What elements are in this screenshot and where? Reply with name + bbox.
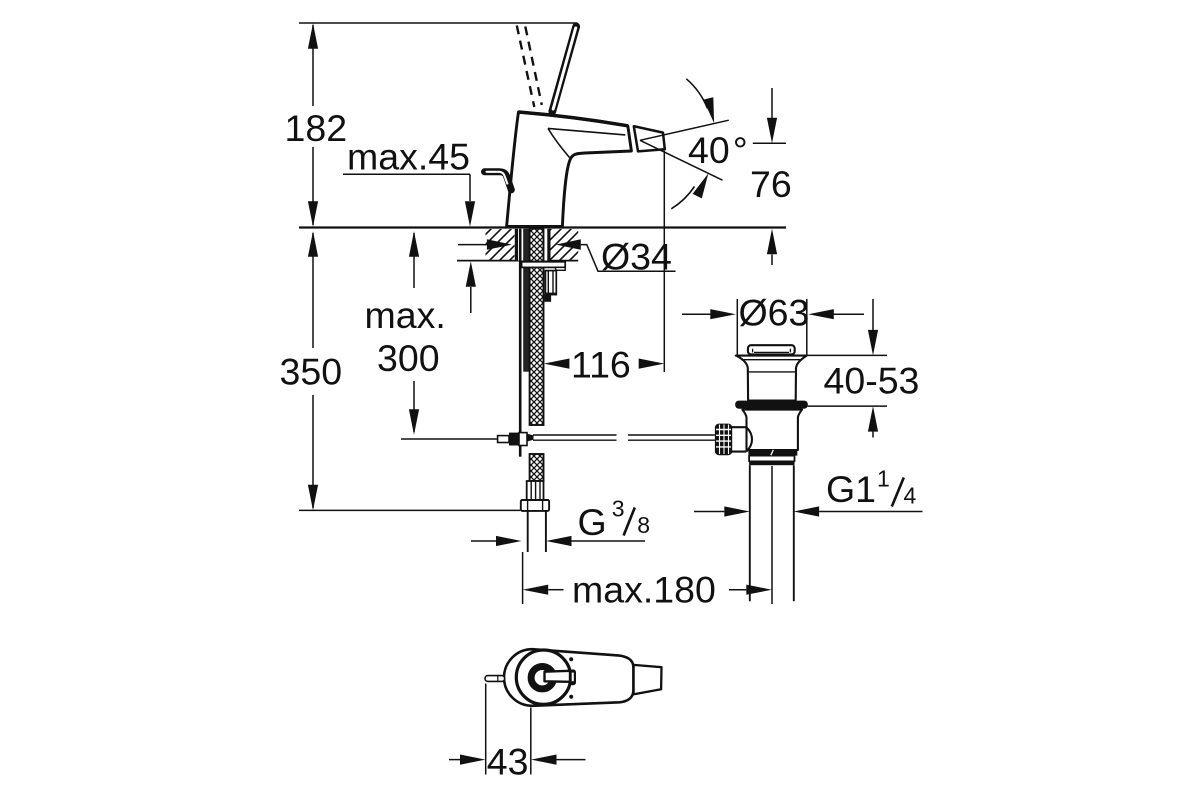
svg-text:300: 300 xyxy=(377,337,440,379)
svg-text:350: 350 xyxy=(280,351,343,393)
svg-text:4: 4 xyxy=(904,483,917,509)
svg-text:76: 76 xyxy=(750,163,792,205)
svg-text:max.180: max.180 xyxy=(572,569,716,611)
svg-text:8: 8 xyxy=(637,512,650,538)
svg-text:G: G xyxy=(578,501,607,543)
svg-text:max.: max. xyxy=(365,294,446,336)
svg-text:43: 43 xyxy=(487,741,529,783)
svg-text:116: 116 xyxy=(571,344,631,386)
svg-text:40°: 40° xyxy=(688,129,748,171)
svg-text:Ø63: Ø63 xyxy=(739,292,810,334)
svg-text:182: 182 xyxy=(285,107,348,149)
svg-text:3: 3 xyxy=(612,496,625,522)
svg-text:40-53: 40-53 xyxy=(824,360,920,402)
svg-text:max.45: max.45 xyxy=(347,136,470,178)
svg-text:G1: G1 xyxy=(826,468,876,510)
svg-text:1: 1 xyxy=(877,466,890,492)
svg-text:Ø34: Ø34 xyxy=(601,236,672,278)
